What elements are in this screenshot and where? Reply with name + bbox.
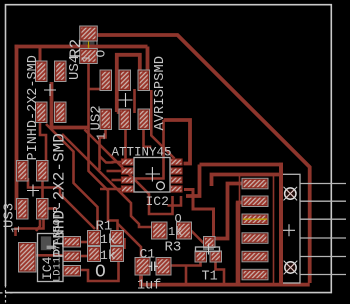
svg-text:1k: 1k bbox=[100, 232, 116, 247]
svg-text:US3: US3 bbox=[2, 203, 18, 228]
svg-text:1uf: 1uf bbox=[137, 279, 161, 294]
svg-text:ATTINY45: ATTINY45 bbox=[112, 146, 172, 160]
svg-text:AVRISPSMD: AVRISPSMD bbox=[153, 56, 168, 131]
svg-text:T1: T1 bbox=[202, 270, 218, 285]
svg-text:1: 1 bbox=[95, 133, 109, 140]
svg-text:O: O bbox=[175, 212, 182, 226]
svg-text:IC2: IC2 bbox=[146, 194, 169, 209]
svg-text:C1: C1 bbox=[140, 247, 156, 262]
svg-text:PINHD-2X2-SMD: PINHD-2X2-SMD bbox=[26, 55, 41, 160]
svg-text:1k: 1k bbox=[168, 225, 182, 239]
svg-text:O: O bbox=[94, 50, 109, 58]
svg-text:1: 1 bbox=[80, 55, 94, 62]
svg-text:LD1117AS50TR: LD1117AS50TR bbox=[52, 206, 64, 282]
svg-text:US2: US2 bbox=[89, 105, 105, 130]
svg-text:O: O bbox=[95, 263, 106, 283]
svg-text:1k: 1k bbox=[100, 248, 116, 263]
svg-text:1: 1 bbox=[9, 226, 23, 233]
svg-text:R3: R3 bbox=[165, 240, 182, 256]
